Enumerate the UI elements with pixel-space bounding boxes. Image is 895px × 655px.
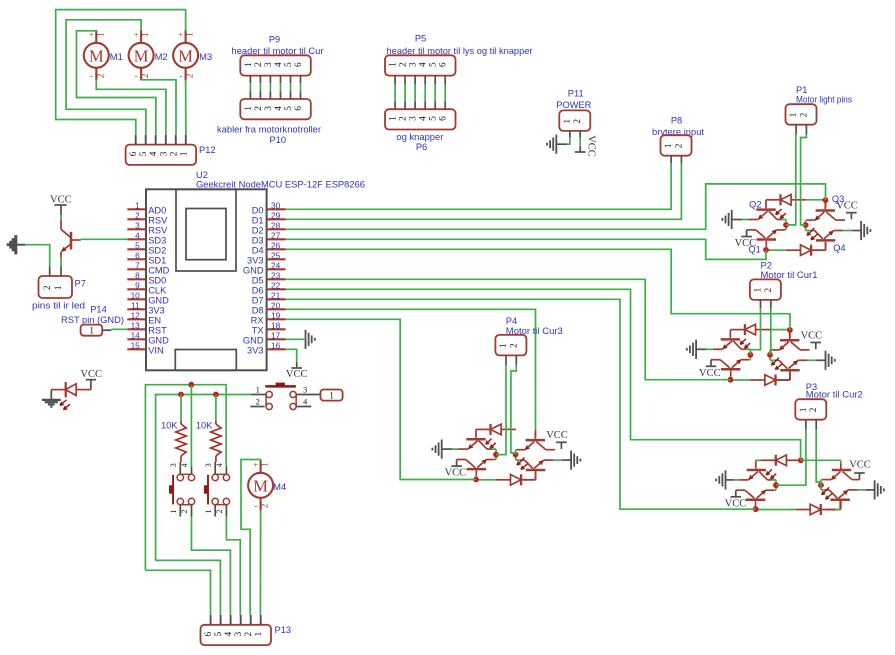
svg-text:VCC: VCC — [546, 430, 568, 441]
svg-text:3V3: 3V3 — [247, 255, 264, 265]
svg-text:2: 2 — [95, 74, 105, 79]
junction node left — [783, 222, 789, 228]
U2 left pin 15 VIN — [127, 348, 146, 350]
VCC bottom-left of bridge — [710, 360, 712, 367]
svg-text:M: M — [253, 476, 268, 495]
svg-text:14: 14 — [131, 330, 141, 340]
svg-text:2: 2 — [399, 116, 409, 121]
wire P4 pin2 to bridge4 right node — [511, 365, 516, 455]
svg-text:M3: M3 — [199, 51, 212, 62]
U2 right pin 30 D0 — [267, 208, 286, 210]
resistor R1 10K — [180, 421, 182, 424]
wire U2 D7 to bridge3 bottom — [286, 299, 756, 509]
svg-text:2: 2 — [399, 62, 409, 67]
U2 right pin 20 D8 — [267, 308, 286, 310]
svg-text:2: 2 — [763, 288, 773, 293]
svg-text:3: 3 — [234, 631, 244, 636]
svg-text:26: 26 — [271, 240, 281, 250]
svg-text:2: 2 — [244, 631, 254, 636]
svg-text:1: 1 — [135, 200, 140, 210]
svg-text:1: 1 — [140, 32, 150, 37]
svg-text:-: - — [90, 71, 93, 81]
svg-text:1: 1 — [562, 119, 572, 124]
svg-text:12: 12 — [131, 310, 141, 320]
svg-text:1: 1 — [204, 510, 213, 514]
transistor bottom-left — [721, 368, 740, 371]
wire U2 3V3 pin16 to VCC — [286, 349, 297, 362]
svg-text:Q1: Q1 — [748, 244, 760, 254]
svg-text:1: 1 — [179, 151, 189, 156]
U2 right pin 29 D1 — [267, 218, 286, 220]
svg-text:6: 6 — [439, 62, 449, 67]
connector single pin at pushbutton — [321, 390, 343, 401]
svg-text:D0: D0 — [252, 205, 264, 215]
svg-text:30: 30 — [271, 200, 281, 210]
svg-text:6: 6 — [204, 631, 214, 636]
svg-text:4: 4 — [224, 631, 234, 636]
connector P12 — [126, 145, 197, 165]
svg-text:Q4: Q4 — [833, 243, 845, 253]
svg-text:TX: TX — [252, 325, 264, 335]
svg-text:28: 28 — [271, 220, 281, 230]
diode top — [779, 194, 781, 205]
wire P3 pin1 to bridge3 left node — [776, 430, 806, 486]
wire P2 pin2 to bridge2 right node — [769, 308, 772, 354]
svg-text:23: 23 — [271, 270, 281, 280]
svg-text:VCC: VCC — [286, 369, 308, 380]
junction node right b3 — [818, 482, 824, 488]
VCC top-right of bridge — [560, 442, 562, 449]
wire P1 pin2 to bridge1 right node — [801, 135, 807, 225]
wire U2 D2 to bridge1 top rail — [286, 184, 826, 229]
VCC bottom-left of bridge — [746, 230, 748, 237]
svg-text:10: 10 — [131, 290, 141, 300]
connector P10 — [240, 99, 310, 119]
VCC bottom-left of bridge — [456, 460, 458, 467]
pushbutton S3 — [265, 385, 296, 388]
svg-text:1: 1 — [260, 462, 270, 467]
junction node top b3 — [798, 457, 804, 463]
U2 left pin 5 SD2 — [127, 248, 146, 250]
junction net B at R2 — [213, 392, 219, 398]
U2 left pin 8 SD0 — [127, 278, 146, 280]
svg-text:GND: GND — [243, 265, 264, 275]
svg-text:18: 18 — [271, 320, 281, 330]
svg-text:3: 3 — [169, 463, 178, 467]
wire VCC to Q5 collector — [60, 215, 62, 219]
svg-text:2: 2 — [260, 504, 270, 509]
svg-text:RX: RX — [251, 315, 264, 325]
svg-text:6: 6 — [129, 151, 139, 156]
U2 left pin 9 CLK — [127, 288, 146, 290]
connector P13 — [201, 625, 272, 645]
svg-text:-: - — [254, 501, 257, 511]
svg-text:M4: M4 — [273, 481, 286, 492]
svg-text:1: 1 — [89, 327, 94, 337]
svg-text:1: 1 — [244, 62, 254, 67]
transistor top-right — [816, 209, 835, 212]
wire to top-right base b3 — [801, 459, 841, 461]
svg-text:SD2: SD2 — [148, 245, 166, 255]
svg-text:1: 1 — [663, 144, 673, 149]
svg-text:17: 17 — [271, 330, 281, 340]
connector P6 — [385, 109, 456, 129]
svg-text:6: 6 — [135, 250, 140, 260]
svg-text:19: 19 — [271, 310, 281, 320]
svg-text:1: 1 — [254, 631, 264, 636]
svg-text:SD0: SD0 — [148, 275, 166, 285]
svg-text:4: 4 — [274, 62, 284, 67]
svg-text:22: 22 — [271, 280, 281, 290]
svg-text:D3: D3 — [252, 235, 264, 245]
ground right of bridge — [843, 230, 852, 232]
svg-text:3: 3 — [409, 116, 419, 121]
wire TL collector to D_L b3 — [772, 479, 776, 481]
ground left of bridge — [742, 219, 749, 221]
wires P9 to P10 — [249, 76, 251, 84]
svg-text:5: 5 — [429, 116, 439, 121]
svg-text:2: 2 — [572, 119, 582, 124]
svg-text:6: 6 — [439, 116, 449, 121]
U2 left pin 7 CMD — [127, 268, 146, 270]
svg-text:5: 5 — [284, 62, 294, 67]
ground at led — [50, 390, 52, 400]
svg-text:20: 20 — [271, 300, 281, 310]
ground at P11 — [556, 143, 567, 145]
wire net A (P13 pin6 / switch pins 4) — [145, 385, 226, 571]
svg-text:2: 2 — [169, 151, 179, 156]
U2 left pin 12 EN — [127, 318, 146, 320]
svg-text:VCC: VCC — [80, 369, 102, 380]
U2 right pin 26 D4 — [267, 248, 286, 250]
svg-text:1: 1 — [788, 113, 798, 118]
svg-text:24: 24 — [271, 260, 281, 270]
wire ground to P7 pin2 — [25, 245, 49, 267]
transistor bottom-left — [757, 238, 776, 241]
wire U2 D0 to P8 pin1 — [286, 163, 671, 209]
svg-text:4: 4 — [149, 151, 159, 156]
wire net B to R1 — [180, 395, 182, 421]
svg-text:RST: RST — [148, 325, 167, 335]
U2 right pin 17 GND — [267, 338, 286, 340]
VCC top-right b3 — [859, 473, 861, 480]
wire base to diode b3 top — [756, 459, 761, 461]
wires P5 to P6 — [394, 76, 396, 85]
switch S1 — [177, 474, 183, 480]
wire switch1 pin2 to P13 pin4 — [192, 517, 231, 615]
svg-text:og knapper: og knapper — [396, 132, 443, 142]
svg-text:1: 1 — [53, 286, 63, 291]
svg-text:1: 1 — [498, 343, 508, 348]
svg-text:Geekcreit NodeMCU ESP-12F ESP8: Geekcreit NodeMCU ESP-12F ESP8266 — [196, 180, 365, 190]
motor M1 — [84, 43, 109, 68]
VCC at P11 — [579, 147, 581, 153]
transistor top-left b3 — [747, 469, 766, 472]
wire green stubs to center dots — [746, 348, 751, 350]
ground at U2 pin17 — [305, 330, 307, 349]
U2 left pin 14 GND — [127, 338, 146, 340]
svg-text:M: M — [134, 46, 149, 65]
ground left of bridge — [452, 448, 459, 450]
svg-text:1: 1 — [329, 391, 334, 401]
ground left of bridge — [706, 348, 713, 350]
wire P11 pin2 to VCC — [579, 138, 581, 147]
svg-text:11: 11 — [131, 300, 140, 310]
svg-text:P13: P13 — [275, 625, 292, 635]
VCC top-right of bridge — [850, 213, 852, 220]
svg-text:D5: D5 — [252, 275, 264, 285]
svg-text:2: 2 — [673, 144, 683, 149]
wire diode to BR base b3 — [836, 509, 841, 511]
transistor bottom-right — [526, 469, 545, 472]
wire U2 D6 to bridge3 top rail — [286, 289, 801, 460]
wire P3 pin2 to bridge3 right node — [816, 430, 821, 486]
svg-text:2: 2 — [256, 396, 260, 406]
motor M4 — [248, 473, 273, 498]
svg-text:2: 2 — [185, 74, 195, 79]
svg-text:D2: D2 — [252, 225, 264, 235]
svg-text:Motor light pins: Motor light pins — [796, 94, 852, 104]
svg-text:P1: P1 — [796, 85, 807, 95]
wire U2 D8 to bridge4 top — [286, 309, 536, 430]
svg-text:16: 16 — [271, 340, 281, 350]
VCC top-right of bridge — [815, 343, 817, 350]
ground right of bridge — [808, 359, 817, 361]
svg-text:4: 4 — [303, 396, 308, 406]
ground left b3 — [734, 479, 739, 481]
wire BR collector to D_R b3 — [821, 489, 825, 491]
svg-text:4: 4 — [215, 463, 224, 467]
svg-text:SD1: SD1 — [148, 255, 166, 265]
svg-text:Q2: Q2 — [749, 200, 761, 210]
svg-text:P11: P11 — [568, 89, 584, 99]
svg-text:VCC: VCC — [849, 460, 871, 471]
connector P7 pins til ir led — [39, 276, 73, 298]
svg-text:2: 2 — [140, 74, 150, 79]
svg-text:+: + — [253, 460, 258, 470]
wire U2 D3 to bridge1 bottom — [286, 239, 766, 259]
transistor top-left — [721, 338, 740, 341]
svg-text:P12: P12 — [199, 145, 216, 155]
motor M2 — [129, 43, 154, 68]
svg-text:1: 1 — [185, 32, 195, 37]
svg-text:1: 1 — [753, 288, 763, 293]
svg-text:P6: P6 — [416, 142, 427, 152]
diode bottom — [810, 245, 812, 256]
U2 right pin 25 3V3 — [267, 258, 286, 260]
junction node right — [803, 222, 809, 228]
U2 left pin 13 RST — [127, 328, 146, 330]
U2 right pin 27 D3 — [267, 238, 286, 240]
wire P1 pin1 to bridge1 left node — [786, 135, 796, 225]
resistor R2 10K — [215, 421, 217, 424]
transistor bottom-right — [816, 239, 835, 242]
wire M1- to P12 pin3 — [96, 80, 166, 135]
diode bottom — [774, 375, 776, 386]
wire Q5 base to U2 SD3 — [81, 238, 128, 240]
transistor top-left — [466, 438, 485, 441]
svg-text:1: 1 — [95, 32, 105, 37]
svg-text:8: 8 — [135, 270, 140, 280]
svg-text:2: 2 — [42, 286, 52, 291]
wire U2 RX to bridge4 bottom — [286, 319, 476, 479]
svg-text:1: 1 — [389, 62, 399, 67]
svg-text:4: 4 — [180, 463, 189, 467]
wire M2- to P12 pin2 — [141, 80, 176, 135]
wire U2 D5 to bridge2 bottom — [286, 279, 731, 379]
svg-text:1: 1 — [169, 510, 178, 514]
svg-text:VCC: VCC — [445, 468, 467, 479]
svg-text:VCC: VCC — [586, 135, 597, 157]
U2 right pin 21 D7 — [267, 298, 286, 300]
U2 left pin 3 RSV — [127, 228, 146, 230]
U2 right pin 23 D5 — [267, 278, 286, 280]
svg-text:6: 6 — [294, 62, 304, 67]
svg-text:2: 2 — [215, 510, 224, 514]
svg-text:AD0: AD0 — [148, 205, 166, 215]
U2 right pin 28 D2 — [267, 228, 286, 230]
svg-text:2: 2 — [180, 510, 189, 514]
svg-text:GND: GND — [148, 335, 169, 345]
switch S2 — [212, 474, 218, 480]
svg-text:2: 2 — [798, 113, 808, 118]
svg-text:Motor til Cur2: Motor til Cur2 — [806, 390, 863, 400]
U2 left pin 1 AD0 — [127, 208, 146, 210]
wire green stubs to center dots — [782, 219, 787, 221]
svg-text:4: 4 — [135, 230, 140, 240]
diode bottom b3 — [820, 504, 822, 515]
transistor Q5 (ir led driver) — [60, 220, 62, 230]
wire net B (P13 pin5 / resistors / pushbutton pin1) — [156, 395, 252, 561]
ground right b3 — [858, 489, 866, 491]
svg-text:5: 5 — [214, 631, 224, 636]
svg-text:4: 4 — [419, 116, 429, 121]
svg-text:VCC: VCC — [725, 499, 747, 510]
junction node right — [513, 452, 519, 458]
svg-text:SD3: SD3 — [148, 235, 166, 245]
svg-text:10K: 10K — [161, 421, 178, 431]
svg-text:3: 3 — [409, 62, 419, 67]
svg-text:VCC: VCC — [801, 330, 823, 341]
svg-text:CLK: CLK — [148, 285, 167, 295]
motor M3 — [173, 43, 198, 68]
svg-text:D1: D1 — [252, 215, 264, 225]
junction node bottom-left — [728, 377, 734, 383]
svg-text:D4: D4 — [252, 245, 264, 255]
svg-text:P4: P4 — [506, 316, 517, 326]
wire U2 D4 to bridge2 top rail — [286, 249, 790, 330]
svg-text:3: 3 — [135, 220, 140, 230]
svg-text:RSV: RSV — [148, 225, 168, 235]
diode top — [744, 324, 746, 335]
wire M3+ to P12 pin6 — [56, 10, 186, 135]
transistor bottom-left — [467, 468, 486, 471]
wire P2 pin1 to bridge2 left node — [750, 308, 760, 354]
svg-text:D8: D8 — [252, 305, 264, 315]
svg-text:2: 2 — [254, 62, 264, 67]
svg-text:15: 15 — [131, 340, 141, 350]
resistor R2 lead to switch2 pin3 — [215, 456, 217, 462]
wire P4 pin1 to bridge4 left node — [496, 365, 506, 455]
diode bottom — [520, 474, 522, 485]
svg-text:P14: P14 — [90, 305, 107, 315]
svg-text:-: - — [135, 71, 138, 81]
diode top b3 — [775, 455, 777, 466]
resistor R1 lead to switch1 pin3 — [180, 456, 182, 462]
U2 right pin 18 TX — [267, 328, 286, 330]
svg-text:2: 2 — [254, 106, 264, 111]
svg-text:10K: 10K — [196, 421, 213, 431]
junction net B at R1 — [178, 392, 184, 398]
wire switch2 pin2 to P13 pin3 — [226, 517, 240, 615]
svg-text:4: 4 — [419, 62, 429, 67]
junction node bottom-left b3 — [753, 506, 759, 512]
wire U2 GND pin17 to ground — [286, 338, 305, 340]
junction node right — [767, 352, 773, 358]
junction node left — [493, 452, 499, 458]
svg-text:M: M — [178, 46, 193, 65]
U2 inner module outline — [176, 189, 236, 271]
wire net B to R2 — [215, 395, 217, 421]
svg-text:21: 21 — [271, 290, 281, 300]
U2 right pin 19 RX — [267, 318, 286, 320]
svg-text:kabler fra motorknotroller: kabler fra motorknotroller — [217, 125, 321, 135]
led LED1 — [76, 389, 91, 391]
svg-text:-: - — [179, 71, 182, 81]
svg-text:1: 1 — [798, 408, 808, 413]
svg-text:M: M — [89, 46, 104, 65]
svg-text:D6: D6 — [252, 285, 264, 295]
svg-text:13: 13 — [131, 320, 141, 330]
U2 right pin 22 D6 — [267, 288, 286, 290]
svg-text:4: 4 — [274, 106, 284, 111]
svg-text:7: 7 — [135, 260, 140, 270]
VCC below U2 — [296, 362, 298, 368]
wire M2+ to P12 pin5 — [66, 20, 146, 135]
svg-text:3: 3 — [264, 62, 274, 67]
svg-text:P7: P7 — [75, 279, 86, 289]
U2 bottom connector outline — [175, 350, 236, 371]
transistor top-left — [756, 208, 775, 211]
wire collector to D_L b3 — [774, 489, 776, 491]
svg-text:3V3: 3V3 — [247, 345, 264, 355]
svg-text:5: 5 — [135, 240, 140, 250]
svg-text:GND: GND — [148, 295, 169, 305]
wire emitter to D_R b3 — [821, 479, 823, 481]
svg-text:VCC: VCC — [699, 368, 721, 379]
svg-text:5: 5 — [429, 62, 439, 67]
junction node top-right — [823, 197, 829, 203]
svg-text:EN: EN — [148, 315, 161, 325]
junction node left b3 — [773, 482, 779, 488]
transistor top-right — [780, 339, 799, 342]
svg-text:P8: P8 — [671, 116, 682, 126]
junction node bottom-left — [473, 477, 479, 483]
transistor top-right b3 — [832, 469, 851, 472]
svg-text:1: 1 — [244, 106, 254, 111]
wire green stubs to center dots — [492, 448, 497, 450]
wire M1+ to P12 pin4 — [77, 31, 156, 135]
svg-text:P10: P10 — [270, 135, 287, 145]
wire M4 top to P13 pin2 — [241, 460, 261, 615]
svg-text:3: 3 — [204, 463, 213, 467]
transistor bottom-right — [780, 369, 799, 372]
wire M4 bottom to P13 pin1 — [259, 510, 261, 615]
svg-text:3V3: 3V3 — [148, 305, 165, 315]
svg-text:VIN: VIN — [148, 345, 164, 355]
svg-text:25: 25 — [271, 250, 281, 260]
U2 left pin 4 SD3 — [127, 238, 146, 240]
